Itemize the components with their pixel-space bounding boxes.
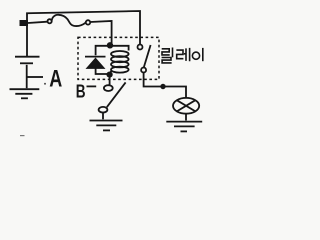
relay contact blade [144, 45, 151, 67]
ground (lamp side) [166, 121, 202, 123]
node on lamp feed [160, 84, 165, 89]
lamp (circle with X) [173, 98, 199, 114]
relay enclosure (dashed box) [78, 37, 159, 79]
switch B blade (open, to ground side) [107, 82, 126, 107]
이: ㅣ [202, 48, 204, 61]
svg-text:A: A [49, 66, 62, 93]
relay coil L (4 turns) [113, 46, 129, 51]
svg-text:B: B [76, 81, 86, 101]
switch B upper terminal [104, 85, 113, 91]
label A leader [28, 76, 44, 78]
label B leader [87, 85, 97, 87]
battery A: negative plate [20, 62, 33, 64]
wire: fuse to relay coil junction [90, 21, 111, 43]
battery A: positive plate [15, 56, 40, 58]
diode D (clamp across coil, cathode bar up) [87, 58, 105, 68]
wire: square terminal to fuse [28, 22, 47, 23]
node: coil top junction [107, 42, 113, 48]
wire: lower terminal to ground [102, 112, 104, 119]
릴: bottom ㄹ [162, 58, 172, 63]
wire: junction to diode anode branch [96, 46, 108, 56]
relay contact upper terminal [138, 45, 143, 50]
fuse F (wavy element between terminals) [48, 19, 52, 23]
scan speck near A [44, 83, 46, 85]
label 릴레이 (relay), glyph 릴: top ㄹ [162, 48, 203, 63]
wire: coil bottom to switch B upper terminal [109, 76, 111, 85]
이: ㅇ [192, 52, 199, 59]
wire: battery to ground [26, 65, 28, 88]
wire: lamp to ground [185, 114, 187, 121]
switch B lower terminal [99, 107, 108, 113]
relay contact lower terminal [141, 68, 146, 73]
ground (battery side) [10, 88, 40, 90]
ground (switch B side) [90, 120, 123, 122]
connector terminal (black square) on battery feed [20, 20, 29, 26]
wire: top bus from battery + to relay contact [27, 11, 140, 56]
레: ㄹ [176, 50, 183, 59]
릴: ㅣ [172, 48, 174, 58]
레: ㅔ [184, 48, 190, 61]
node: coil bottom junction [107, 72, 113, 78]
scan speck bottom left [20, 135, 25, 137]
wire: contact to lamp [144, 73, 186, 98]
